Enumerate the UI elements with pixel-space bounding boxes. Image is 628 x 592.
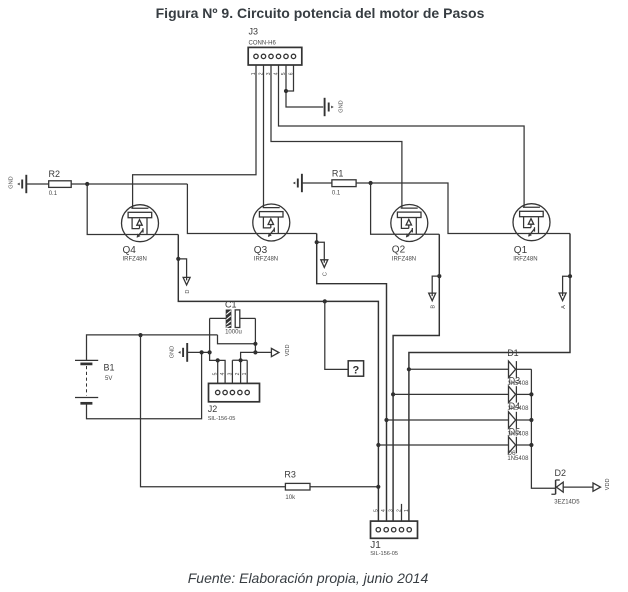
transistor Q2	[391, 205, 428, 242]
node R3 junction	[376, 485, 380, 489]
svg-text:?: ?	[353, 364, 360, 376]
wire to ?-box	[325, 301, 348, 369]
terminal B (Q2 phase)	[429, 276, 440, 308]
node Q3 terminal junction	[315, 240, 319, 244]
diode D4 1N5408	[509, 412, 532, 428]
svg-text:D1: D1	[507, 348, 519, 358]
node right bracket junction	[239, 358, 243, 362]
terminal A (Q1 phase)	[559, 276, 570, 309]
wire VDD lead	[255, 351, 271, 353]
wire J3 pin2 to Q3 gate	[263, 65, 265, 208]
node Q1 terminal junction	[568, 274, 572, 278]
svg-text:Q2: Q2	[392, 245, 406, 256]
svg-text:R2: R2	[49, 169, 61, 179]
svg-text:GND: GND	[339, 100, 345, 112]
svg-text:1000u: 1000u	[225, 330, 242, 336]
capacitor C1	[210, 299, 256, 335]
wire C1 right lead down	[254, 318, 256, 352]
wire Q3 phase down and across	[317, 234, 387, 528]
resistor R3	[284, 470, 310, 502]
wire diode line 4	[378, 444, 508, 446]
svg-text:VDD: VDD	[285, 344, 291, 356]
J1 pin numbers	[373, 509, 410, 512]
node bus/line3	[529, 418, 533, 422]
svg-text:J3: J3	[249, 27, 259, 37]
node R1 junction	[369, 181, 373, 185]
node B1/R3 junction	[138, 333, 142, 337]
wire R2 to junction and to Q3 source drop	[71, 183, 187, 185]
svg-text:2: 2	[235, 372, 241, 375]
connector J2	[208, 383, 260, 422]
svg-text:1N5408: 1N5408	[507, 432, 529, 438]
svg-text:4: 4	[220, 372, 226, 375]
wire Q4 phase down and across	[178, 235, 378, 528]
wire J3 pin6	[286, 65, 294, 91]
wire ground lead	[187, 351, 209, 353]
svg-text:0.1: 0.1	[332, 191, 341, 197]
svg-text:Q1: Q1	[514, 245, 528, 256]
wire J3 pin1 to Q4 gate	[133, 65, 256, 208]
transistor Q1	[513, 204, 550, 241]
power VDD (right)	[593, 483, 601, 491]
wire cathode bus	[531, 369, 555, 488]
svg-text:SIL-156-05: SIL-156-05	[208, 416, 236, 422]
ground (R2 left)	[17, 175, 26, 193]
ground (J3)	[325, 98, 334, 116]
wire diode line 1	[409, 368, 509, 370]
svg-text:3: 3	[389, 509, 395, 512]
node VDD junction	[253, 350, 257, 354]
wire R3 riser and to R3	[141, 335, 286, 487]
wire GND to R2	[26, 183, 48, 185]
svg-text:3EZ14D5: 3EZ14D5	[554, 499, 580, 505]
node ground/C1 junction	[208, 350, 212, 354]
svg-text:IRFZ48N: IRFZ48N	[254, 257, 278, 263]
diode D1 1N5408	[507, 348, 531, 377]
svg-text:2: 2	[397, 509, 403, 512]
wire left bracket to J2 pins 5,4	[210, 352, 226, 383]
wire diode line 3	[387, 419, 509, 421]
svg-text:1: 1	[404, 509, 410, 512]
svg-text:D2: D2	[555, 468, 567, 478]
svg-text:VDD: VDD	[605, 478, 611, 490]
wire right bracket to J2 pins 3,2,1	[232, 352, 255, 383]
node bus/line4	[529, 443, 533, 447]
connector J3	[248, 27, 302, 66]
wire J3 pin4 to Q1 gate	[279, 65, 525, 207]
node Q4 terminal junction	[176, 257, 180, 261]
svg-text:3: 3	[227, 372, 233, 375]
svg-text:1: 1	[242, 372, 248, 375]
svg-text:GND: GND	[9, 176, 15, 188]
node diode line 4 junction	[376, 443, 380, 447]
svg-text:C1: C1	[225, 299, 237, 309]
svg-text:1N5408: 1N5408	[507, 381, 529, 387]
node diode line 1 junction	[407, 367, 411, 371]
wire Q2 drain down, left, down to J1	[393, 234, 439, 527]
svg-text:B1: B1	[104, 363, 115, 373]
svg-text:Figura Nº 9. Circuito potencia: Figura Nº 9. Circuito potencia del motor…	[156, 5, 485, 21]
wire diode line 2	[393, 393, 508, 395]
node ground/B1 junction	[200, 350, 204, 354]
wire B1 minus loop to ground net	[87, 352, 202, 418]
power VDD (center)	[271, 348, 279, 356]
ground (R1 left)	[293, 174, 302, 192]
wire GND to R1	[302, 182, 332, 184]
wire J1 pin2 stub	[401, 504, 403, 528]
svg-text:D: D	[185, 290, 191, 294]
svg-text:SIL-156-05: SIL-156-05	[370, 551, 398, 557]
svg-text:Q3: Q3	[254, 245, 268, 256]
wire R2 junction down to Q4 source line	[87, 184, 178, 235]
svg-text:CONN-H6: CONN-H6	[249, 41, 277, 47]
wire R2 branch to Q3 source line	[187, 184, 316, 234]
resistor R1	[332, 169, 356, 197]
svg-text:0.1: 0.1	[49, 191, 58, 197]
node pin5/pin6 junction	[284, 89, 288, 93]
svg-text:A: A	[561, 305, 567, 309]
node Q2 terminal junction	[437, 274, 441, 278]
wire B1 plus up and right	[87, 335, 218, 361]
ground (near C1)	[178, 343, 187, 362]
svg-text:J2: J2	[208, 404, 218, 414]
svg-text:Fuente: Elaboración propia, ju: Fuente: Elaboración propia, junio 2014	[188, 570, 429, 586]
svg-text:B: B	[431, 305, 437, 309]
node R2 junction	[85, 182, 89, 186]
battery B1	[75, 360, 115, 403]
svg-text:5V: 5V	[105, 376, 112, 382]
diode D3 1N5408	[509, 386, 532, 402]
svg-text:C: C	[323, 272, 329, 276]
J3 pin numbers 1-6	[251, 72, 295, 75]
diode D5 1N5408	[509, 437, 532, 453]
wire D2 to VDD	[563, 486, 593, 488]
node bus/line2	[529, 392, 533, 396]
svg-text:IRFZ48N: IRFZ48N	[513, 257, 537, 263]
wire R3 to J1 pin 5 line	[310, 486, 378, 488]
svg-text:GND: GND	[169, 346, 175, 358]
node diode line 3 junction	[384, 418, 388, 422]
svg-text:1N5408: 1N5408	[507, 456, 529, 462]
resistor R2	[49, 169, 72, 197]
svg-text:IRFZ48N: IRFZ48N	[392, 257, 416, 263]
svg-text:IRFZ48N: IRFZ48N	[123, 257, 147, 263]
transistor Q3	[253, 204, 290, 241]
wire B1 branch down to C1 right node	[218, 335, 256, 344]
terminal C (Q3 phase)	[317, 242, 329, 276]
svg-text:5: 5	[373, 509, 379, 512]
wire R1 to Q1 source drop	[356, 183, 570, 234]
svg-text:R3: R3	[284, 470, 296, 480]
wire R1 junction down to Q2 source line	[371, 183, 440, 234]
node ?-box junction	[323, 299, 327, 303]
wire J3 pin5 to ground	[286, 65, 323, 107]
connector J1	[370, 521, 417, 557]
svg-text:1N5408: 1N5408	[507, 406, 529, 412]
node C1/B1 plus junction	[253, 342, 257, 346]
wire Q1 drain down, left, down to J1	[409, 234, 570, 528]
node left bracket junction	[216, 358, 220, 362]
svg-text:10k: 10k	[285, 495, 296, 501]
svg-text:4: 4	[381, 509, 387, 512]
svg-text:R1: R1	[332, 169, 344, 179]
J2 pin numbers	[213, 372, 249, 375]
svg-text:J1: J1	[370, 540, 381, 551]
transistor Q4	[122, 205, 159, 242]
wire J3 pin3 to Q2 gate	[271, 65, 402, 208]
node diode line 2 junction	[391, 392, 395, 396]
terminal D (Q4 phase)	[178, 259, 191, 294]
diode D2 zener 3EZ14D5	[551, 468, 580, 505]
svg-text:Q4: Q4	[123, 245, 137, 256]
wire C1 left lead down to ground net	[209, 318, 211, 352]
unknown component ?-box	[348, 361, 363, 377]
svg-text:5: 5	[213, 372, 219, 375]
